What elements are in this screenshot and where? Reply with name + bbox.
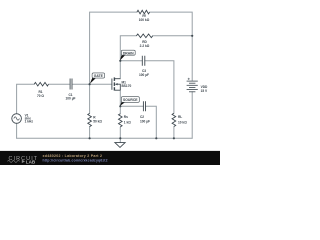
flag GATE: [90, 73, 105, 84]
svg-text:1 kHz: 1 kHz: [25, 119, 34, 123]
mosfet M1 gate bar: [111, 79, 113, 90]
wire Rs bottom: [119, 127, 121, 138]
svg-text:C2: C2: [140, 115, 144, 119]
resistor Rf: [137, 10, 150, 14]
wire C1 to gate node: [73, 83, 90, 85]
wire R top: [89, 84, 91, 113]
svg-text:100 µF: 100 µF: [139, 73, 149, 77]
wire RL bottom: [173, 127, 175, 139]
wire RD left: [120, 36, 136, 61]
wire Rf to right rail: [150, 12, 193, 36]
flag DRAIN: [120, 50, 135, 60]
node C2 bottom junction: [155, 137, 157, 139]
svg-text:2.2 kΩ: 2.2 kΩ: [140, 44, 150, 48]
flag SOURCE: [120, 97, 139, 106]
wire R bottom: [89, 127, 91, 139]
junction dots: [89, 35, 194, 140]
wire source node to C2: [120, 105, 143, 107]
svg-text:GATE: GATE: [94, 74, 104, 78]
capacitor C2: [143, 101, 145, 111]
mosfet M1 source stub: [115, 89, 120, 91]
source V1 sine: [14, 117, 20, 120]
svg-text:10 kΩ: 10 kΩ: [178, 120, 187, 124]
ground stem: [119, 138, 121, 142]
wire V1 bottom: [16, 123, 18, 138]
node RL bottom junction: [173, 137, 175, 139]
node R bottom junction: [89, 137, 91, 139]
wire C2 right corner down: [146, 106, 157, 138]
mosfet M1 arrow: [115, 83, 118, 85]
svg-text:50 kΩ: 50 kΩ: [93, 120, 102, 124]
wire battery bottom to rail: [191, 92, 193, 139]
svg-text:SOURCE: SOURCE: [123, 98, 138, 102]
svg-text:100 µF: 100 µF: [140, 120, 150, 124]
wire drain node to C3: [120, 60, 142, 62]
battery plus sign: [188, 78, 190, 80]
mosfet M1 channel segments: [113, 77, 115, 90]
svg-text:LAB: LAB: [26, 159, 36, 164]
wire Rf loop left vertical: [90, 12, 137, 84]
node ground junction: [119, 137, 121, 139]
footer bar: [0, 151, 220, 165]
wire gate node to mosfet gate: [90, 83, 112, 85]
node drain junction: [119, 60, 121, 62]
wire bottom rail: [17, 137, 193, 139]
mosfet M1 drain stub: [115, 78, 120, 80]
wire RD right to rail: [153, 36, 193, 81]
footer logo wave: [8, 160, 20, 162]
node RD-rail junction: [191, 35, 193, 37]
capacitor C1: [70, 79, 72, 90]
svg-text:http://circuitlab.com/c/xkcadz: http://circuitlab.com/c/xkcadzyq6zt2: [43, 158, 108, 162]
svg-text:100 kΩ: 100 kΩ: [139, 18, 150, 22]
mosfet M1 body connector: [117, 84, 120, 90]
battery VDD plates: [187, 81, 198, 92]
wire V1 top: [17, 84, 35, 114]
capacitor C3: [142, 56, 145, 66]
svg-text:BS170: BS170: [122, 84, 132, 88]
svg-text:70 Ω: 70 Ω: [37, 94, 44, 98]
node gate junction: [89, 83, 91, 85]
wire drain vertical: [119, 61, 121, 79]
source V1 circle: [12, 114, 22, 124]
resistor R1: [34, 82, 48, 86]
svg-text:15 V: 15 V: [201, 89, 208, 93]
wire C3 to RL corner: [145, 61, 174, 114]
svg-text:DRAIN: DRAIN: [123, 51, 134, 55]
svg-text:Rs: Rs: [124, 115, 128, 119]
node source junction: [119, 105, 121, 107]
wire source vertical: [119, 90, 121, 114]
svg-text:RL: RL: [178, 115, 182, 119]
resistor RD: [136, 34, 152, 38]
svg-text:1 kΩ: 1 kΩ: [124, 120, 131, 124]
resistor RL: [172, 113, 176, 126]
footer logo LAB: [22, 160, 25, 163]
resistor Rs: [119, 114, 123, 127]
resistor R: [88, 113, 92, 126]
wire R1 to C1: [49, 83, 70, 85]
svg-text:100 µF: 100 µF: [66, 97, 76, 101]
ground symbol: [115, 143, 125, 148]
